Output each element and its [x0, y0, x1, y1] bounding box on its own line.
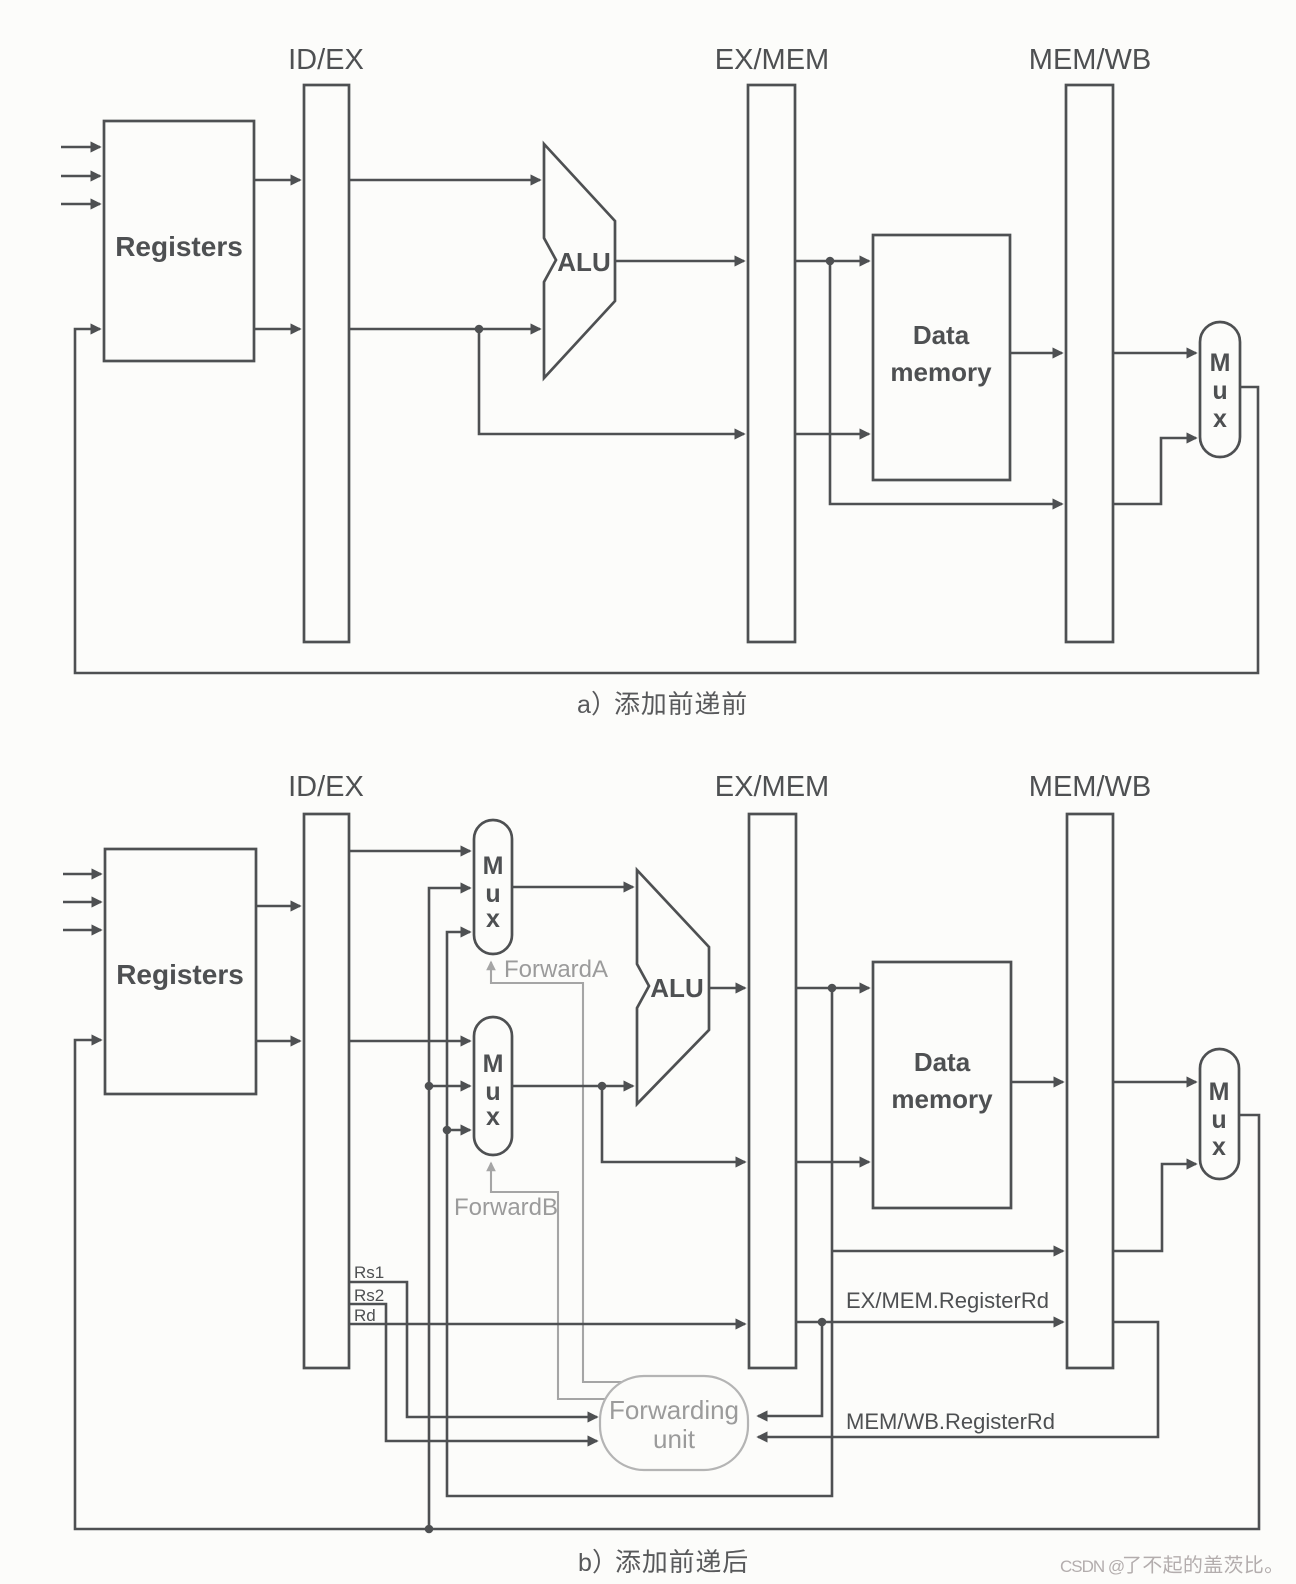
node junction on ALU result (b): [828, 984, 837, 993]
svg-text:Rd: Rd: [354, 1306, 376, 1325]
wire ID/EX to ALU lower input (a): [349, 328, 540, 331]
wire Registers to ID/EX upper (b): [256, 905, 300, 908]
node junction write-back loop at riser (b): [425, 1525, 434, 1534]
svg-text:unit: unit: [653, 1424, 696, 1454]
wire input 3 to Registers (a): [61, 203, 100, 206]
wire ID/EX to MuxA input 1 (b): [349, 850, 470, 853]
svg-text:Forwarding: Forwarding: [609, 1395, 739, 1425]
wire branch to MuxB input 3 (b): [447, 1129, 470, 1132]
register file Registers (a): [104, 121, 254, 361]
wire input 2 to Registers (b): [63, 901, 101, 904]
svg-text:ForwardA: ForwardA: [504, 956, 608, 983]
svg-text:M: M: [1210, 349, 1231, 377]
node junction EX/MEM.RegisterRd (b): [818, 1318, 827, 1327]
svg-text:EX/MEM: EX/MEM: [715, 771, 829, 803]
pipeline register ID/EX (b): [304, 814, 349, 1368]
wire Rd to EX/MEM (b): [349, 1323, 745, 1326]
node junction on ALU result (a): [826, 257, 835, 266]
wire input 1 to Registers (b): [63, 873, 101, 876]
node junction on lower ALU wire (a): [475, 325, 484, 334]
wire branch to MuxB input 2 (b): [429, 1085, 470, 1088]
wire ALU output to EX/MEM (b): [709, 987, 745, 990]
wire Registers to ID/EX lower (a): [254, 328, 300, 331]
mux U1 write-back Mux (a): [1200, 322, 1240, 457]
svg-text:MEM/WB: MEM/WB: [1029, 44, 1151, 76]
svg-text:a: a: [577, 691, 591, 719]
pipeline register EX/MEM (a): [748, 85, 795, 642]
wire Registers to ID/EX lower (b): [256, 1040, 300, 1043]
svg-text:x: x: [486, 905, 500, 933]
svg-text:CSDN @: CSDN @: [1060, 1557, 1124, 1576]
svg-text:Registers: Registers: [115, 231, 243, 262]
wire store-data bypass to EX/MEM (a): [479, 329, 744, 434]
svg-text:M: M: [483, 1050, 504, 1078]
svg-text:x: x: [486, 1103, 500, 1131]
wire Registers to ID/EX upper (a): [254, 179, 300, 182]
wire ALU output to EX/MEM (a): [615, 260, 744, 263]
wire EX/MEM to Data memory address (a): [795, 260, 869, 263]
wire ALU result to MEM/WB (b): [832, 1250, 1063, 1253]
wire Data memory read data to MEM/WB (b): [1011, 1081, 1063, 1084]
wire MEM/WB to Mux lower input (b): [1113, 1164, 1196, 1251]
wire write-back value riser to MuxA input 2 (b): [429, 888, 470, 1529]
svg-text:memory: memory: [890, 357, 992, 387]
pipeline register MEM/WB (b): [1067, 814, 1113, 1368]
control wire ForwardB (gray): [491, 1163, 606, 1399]
wire input 3 to Registers (b): [63, 929, 101, 932]
svg-text:M: M: [483, 852, 504, 880]
svg-text:EX/MEM.RegisterRd: EX/MEM.RegisterRd: [846, 1288, 1049, 1313]
wire MEM/WB to Mux upper input (a): [1113, 352, 1196, 355]
wire EX/MEM to Data memory address (b): [796, 987, 869, 990]
svg-text:ALU: ALU: [557, 247, 610, 277]
ALU (b): [637, 870, 709, 1104]
node junction on MuxB output (b): [598, 1082, 607, 1091]
wire ID/EX to MuxB input 1 (b): [349, 1040, 470, 1043]
svg-text:ID/EX: ID/EX: [288, 771, 364, 803]
mux U2 write-back Mux (b): [1200, 1049, 1239, 1179]
pipeline register EX/MEM (b): [749, 814, 796, 1368]
ALU (a): [544, 144, 615, 378]
mux MuxA forwarding mux A (b): [474, 820, 512, 954]
svg-text:Registers: Registers: [116, 959, 244, 990]
svg-text:ID/EX: ID/EX: [288, 44, 364, 76]
wire write-back loop Mux to Registers (b): [75, 1040, 1259, 1529]
wire input 2 to Registers (a): [61, 175, 100, 178]
wire EX/MEM ALU result riser (b): [447, 932, 832, 1496]
svg-text:x: x: [1212, 1133, 1226, 1161]
wire store-data bypass to EX/MEM (b): [602, 1086, 745, 1162]
wire Data memory read data to MEM/WB (a): [1010, 352, 1062, 355]
wire MEM/WB to Mux lower input (a): [1113, 438, 1196, 504]
svg-text:u: u: [1211, 1106, 1226, 1134]
wire MuxA output to ALU upper input (b): [512, 886, 633, 889]
wire MuxB output to ALU lower input (b): [512, 1085, 633, 1088]
wire MEM/WB to Mux upper input (b): [1113, 1081, 1196, 1084]
pipeline register ID/EX (a): [304, 85, 349, 642]
register file Registers (b): [105, 849, 256, 1094]
svg-text:Data: Data: [914, 1047, 971, 1077]
svg-text:memory: memory: [891, 1084, 993, 1114]
memory Data memory (a): [873, 235, 1010, 480]
svg-text:Rs2: Rs2: [354, 1286, 384, 1305]
node junction WB riser at MuxB (b): [425, 1082, 434, 1091]
wire input 1 to Registers (a): [61, 146, 100, 149]
wire MEM/WB.RegisterRd to Forwarding unit (b): [758, 1322, 1158, 1437]
control wire ForwardA (gray): [491, 962, 622, 1382]
forwarding unit (b): [600, 1376, 748, 1470]
svg-text:u: u: [1212, 377, 1227, 405]
wire EX/MEM to Data memory write data (a): [795, 433, 869, 436]
mux MuxB forwarding mux B (b): [474, 1017, 512, 1155]
svg-text:ALU: ALU: [650, 973, 703, 1003]
memory Data memory (b): [873, 962, 1011, 1208]
svg-text:x: x: [1213, 405, 1227, 433]
wire Rs2 to Forwarding unit (b): [349, 1304, 597, 1441]
wire EX/MEM.RegisterRd to Forwarding unit (b): [758, 1322, 822, 1416]
svg-text:EX/MEM: EX/MEM: [715, 44, 829, 76]
svg-text:MEM/WB.RegisterRd: MEM/WB.RegisterRd: [846, 1409, 1055, 1434]
svg-text:ForwardB: ForwardB: [454, 1194, 558, 1221]
svg-text:M: M: [1209, 1078, 1230, 1106]
wire EX/MEM to Data memory write data (b): [796, 1161, 869, 1164]
wire Rs1 to Forwarding unit (b): [349, 1282, 597, 1417]
svg-text:MEM/WB: MEM/WB: [1029, 771, 1151, 803]
svg-text:u: u: [485, 1078, 500, 1106]
wire ID/EX to ALU upper input (a): [349, 179, 540, 182]
svg-text:Data: Data: [913, 320, 970, 350]
node junction ALU-result riser at MuxB (b): [443, 1126, 452, 1135]
svg-text:Rs1: Rs1: [354, 1263, 384, 1282]
wire EX/MEM.RegisterRd to MEM/WB (b): [796, 1321, 1063, 1324]
svg-text:u: u: [485, 880, 500, 908]
wire write-back loop Mux to Registers (a): [75, 329, 1258, 673]
pipeline register MEM/WB (a): [1066, 85, 1113, 642]
svg-text:b: b: [578, 1549, 592, 1577]
wire ALU result to MEM/WB (a): [830, 261, 1062, 504]
